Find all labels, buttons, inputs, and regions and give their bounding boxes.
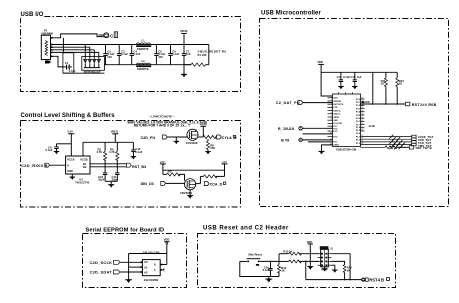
svg-text:FDV302P: FDV302P — [186, 141, 198, 145]
svg-text:GND: GND — [67, 169, 73, 173]
svg-text:USB I/O: USB I/O — [21, 12, 44, 18]
svg-text:21: 21 — [361, 120, 363, 122]
svg-text:0.1uF: 0.1uF — [121, 52, 128, 56]
wire VBUS reroute — [62, 38, 64, 54]
svg-text:28: 28 — [361, 98, 363, 100]
net flag CYLA_D — [217, 135, 237, 140]
svg-text:C2D_PU: C2D_PU — [141, 136, 156, 140]
power flag VDD — [317, 60, 324, 72]
svg-text:A2: A2 — [144, 271, 148, 275]
resistor R12 — [396, 72, 405, 104]
svg-text:B Y8: B Y8 — [281, 139, 289, 143]
op-amp U2 level shifter — [66, 156, 90, 184]
ground rail USB I/O — [104, 64, 191, 66]
wire VDD rail — [321, 71, 397, 73]
svg-text:VBUS: VBUS — [111, 130, 119, 134]
svg-text:33pF: 33pF — [98, 178, 105, 182]
wire VDD into pin8 — [160, 264, 167, 266]
capacitor C11 — [112, 167, 120, 182]
svg-text:+3.3V: +3.3V — [200, 122, 207, 126]
svg-text:USB Microcontroller: USB Microcontroller — [261, 10, 321, 16]
wire pulldown vertical — [128, 254, 130, 280]
net flag C2_DAT left — [276, 101, 333, 106]
wire reset tee down — [305, 261, 307, 280]
IC U5 — [142, 260, 160, 282]
switch S1 — [240, 259, 279, 266]
svg-text:C2D_SDAT: C2D_SDAT — [90, 270, 113, 275]
svg-text:0.1uF: 0.1uF — [135, 150, 142, 154]
svg-text:1uF: 1uF — [357, 75, 362, 79]
inductor L1 — [136, 39, 151, 51]
svg-text:A1: A1 — [144, 265, 148, 269]
capacitor C9 — [46, 144, 72, 152]
power flag +5V left — [160, 160, 166, 175]
svg-text:Mini Reset: Mini Reset — [249, 253, 263, 257]
svg-text:23: 23 — [361, 114, 363, 116]
power flag +5V right — [222, 160, 228, 164]
inductor L2 — [136, 59, 151, 71]
net flag C2D_PU — [141, 135, 187, 140]
pin nubs U5 — [140, 262, 162, 273]
ground button — [265, 277, 272, 283]
svg-text:A0: A0 — [144, 260, 148, 264]
power flag VDD eeprom — [164, 238, 170, 265]
svg-text:22: 22 — [361, 117, 363, 119]
resistor R6 — [109, 142, 119, 167]
svg-text:USB_D+: USB_D+ — [333, 110, 342, 112]
svg-text:R13 1K: R13 1K — [283, 249, 292, 253]
svg-text:6: 6 — [331, 112, 332, 114]
resistor R1 — [184, 45, 226, 67]
svg-text:VREGIN: VREGIN — [333, 101, 341, 103]
ground eeprom — [125, 280, 132, 283]
svg-text:VCCB: VCCB — [80, 157, 88, 161]
wire low left — [308, 141, 333, 143]
svg-text:GND2: GND2 — [333, 145, 339, 147]
svg-text:1K: 1K — [281, 269, 284, 273]
ground header right — [332, 265, 338, 273]
section border USB I/O — [21, 17, 241, 92]
IC U4 pin names left — [333, 98, 344, 147]
svg-text:74LVC2T45: 74LVC2T45 — [75, 180, 90, 184]
svg-text:RST/C2CK: RST/C2CK — [333, 104, 344, 106]
ground Q1 — [174, 137, 180, 144]
ground shared caps — [105, 181, 117, 187]
resistor R9 gate — [163, 170, 185, 181]
wire output loop right — [331, 254, 350, 280]
svg-text:20: 20 — [361, 123, 363, 125]
svg-text:0.1uF: 0.1uF — [134, 52, 141, 56]
capacitor C6 — [168, 45, 179, 65]
power flag VDD reset — [307, 240, 313, 267]
svg-text:SP0503BAHT: SP0503BAHT — [84, 70, 101, 74]
resistor R14 — [279, 260, 319, 263]
svg-text:VBUS: VBUS — [333, 117, 339, 119]
wire U2 outputs — [90, 163, 126, 167]
svg-text:5: 5 — [331, 109, 332, 111]
net flag boxes C2 bundle — [412, 135, 416, 146]
svg-text:1uF: 1uF — [186, 52, 191, 56]
IC U4 pins left stubs — [328, 98, 333, 145]
svg-text:-- LPWCTO NOTE --: -- LPWCTO NOTE -- — [149, 114, 175, 118]
svg-text:B2: B2 — [83, 165, 87, 169]
connector P1 USB — [41, 29, 53, 64]
svg-text:C2D: C2D — [333, 107, 338, 109]
svg-text:VDD: VDD — [307, 240, 313, 244]
svg-text:VBUS_RESET R0: VBUS_RESET R0 — [198, 50, 227, 54]
capacitor C10 — [98, 164, 107, 182]
svg-text:C8051F326-GM: C8051F326-GM — [336, 147, 357, 151]
svg-text:L2: L2 — [142, 59, 146, 63]
IC U4 pins right stubs — [361, 99, 365, 131]
svg-text:VCCA: VCCA — [67, 157, 75, 161]
capacitor F1 (bulk cap in box) — [63, 53, 76, 73]
svg-text:R_JXU18: R_JXU18 — [278, 127, 294, 131]
capacitor C14 — [337, 72, 351, 89]
svg-text:0.1uF: 0.1uF — [46, 148, 53, 152]
wire VDD to RST pullups — [372, 72, 374, 104]
power flag VBUS (control) — [111, 130, 119, 143]
svg-text:4x1K: 4x1K — [369, 124, 375, 128]
IC U4 pin names right — [356, 99, 361, 145]
wire bottom out — [306, 279, 362, 281]
svg-text:USB_D-: USB_D- — [333, 114, 341, 116]
wire A1 mid — [129, 266, 143, 268]
section border USB Microcontroller — [260, 19, 449, 207]
svg-text:GND: GND — [333, 120, 338, 122]
svg-text:+5V: +5V — [160, 160, 165, 164]
wire VDD to IC left top — [321, 72, 332, 96]
transistor Q1 — [186, 129, 198, 145]
svg-text:C2D_RX03 B: C2D_RX03 B — [21, 163, 48, 168]
header J1 — [318, 246, 334, 271]
svg-text:4.7uF: 4.7uF — [69, 69, 76, 73]
svg-text:RETURN FOR 7 AND 3 OF 15 .xx.: RETURN FOR 7 AND 3 OF 15 .xx... T — [134, 124, 190, 128]
svg-text:Serial EEPROM for Board ID: Serial EEPROM for Board ID — [86, 227, 165, 233]
wire shield to F1 box — [53, 56, 65, 67]
section border USB Reset — [198, 234, 396, 288]
svg-text:A: A — [67, 163, 69, 167]
svg-text:VDD: VDD — [333, 98, 338, 100]
svg-text:P3.0/C2D: P3.0/C2D — [333, 123, 342, 125]
wire VCCB rail — [83, 142, 133, 156]
capacitor C12 — [131, 142, 143, 159]
note text — [128, 120, 207, 127]
svg-text:10K: 10K — [210, 146, 215, 150]
svg-text:C14: C14 — [337, 75, 342, 79]
svg-text:CCA_D: CCA_D — [210, 182, 223, 186]
power flag VBUS — [180, 29, 188, 45]
svg-text:0.1uF: 0.1uF — [263, 268, 270, 272]
svg-text:24LC00/SN: 24LC00/SN — [144, 278, 159, 282]
resistor R13 — [279, 249, 319, 255]
capacitor C16 — [263, 261, 273, 277]
net flag RST_SW output — [362, 278, 390, 283]
svg-text:19: 19 — [361, 126, 363, 128]
svg-text:Control Level Shifting & Buffe: Control Level Shifting & Buffers — [21, 113, 116, 119]
svg-text:3.3V: 3.3V — [67, 130, 73, 134]
capacitor C2 — [103, 45, 114, 65]
pin numbers U4 right — [361, 98, 363, 146]
ground — [181, 65, 187, 78]
pin 8 stub — [160, 264, 163, 266]
svg-text:10V: 10V — [158, 55, 163, 59]
pin numbers U4 left — [330, 96, 332, 145]
ground header left — [322, 267, 328, 272]
svg-text:10V: 10V — [107, 55, 112, 59]
wire Q1 out + resistor R7 — [198, 135, 217, 138]
svg-text:+5V: +5V — [222, 160, 227, 164]
svg-text:L1: L1 — [142, 39, 146, 43]
shield/testpoint symbol TP1 — [104, 32, 118, 39]
transistor Q2 — [180, 179, 196, 195]
svg-text:1: 1 — [331, 96, 332, 98]
svg-text:4: 4 — [331, 106, 332, 108]
IC U4 C8051F326 — [333, 94, 361, 151]
wire RST net — [361, 101, 406, 105]
ground VDD cap — [307, 267, 313, 270]
resistor R5 — [97, 142, 107, 164]
resistor network RN1 — [389, 135, 405, 150]
ground — [54, 151, 60, 154]
wire D/VBUS bundle — [53, 45, 209, 59]
wire button loop — [240, 254, 287, 277]
svg-text:FERRITE: FERRITE — [137, 67, 149, 71]
section border Control Level Shifting — [21, 121, 241, 208]
svg-text:2: 2 — [331, 100, 332, 102]
TVS array U1 SP0503 — [82, 57, 105, 74]
ground Q2 — [187, 190, 193, 199]
IC top pins — [339, 92, 353, 94]
wire mid left — [303, 133, 333, 135]
svg-text:4.7K: 4.7K — [97, 150, 103, 154]
section border Serial EEPROM — [83, 234, 187, 288]
svg-text:VBUS: VBUS — [180, 29, 188, 33]
svg-text:25: 25 — [361, 107, 363, 109]
net flag C2D_SCLK — [90, 260, 143, 265]
net flag RST_B — [126, 163, 146, 169]
net flag RST_IN — [405, 102, 436, 107]
capacitor C5 — [154, 45, 165, 65]
capacitor C15 — [351, 72, 363, 89]
wire C2 bundle — [361, 137, 412, 148]
resistor R15 — [332, 261, 353, 279]
svg-text:USB Reset and C2 Header: USB Reset and C2 Header — [203, 226, 289, 232]
svg-text:C15: C15 — [351, 75, 356, 79]
net flag C2D_SDAT — [90, 270, 143, 275]
svg-text:1K: 1K — [399, 82, 402, 86]
svg-text:R9: R9 — [168, 170, 172, 174]
wire Q2 drain + resistor R10 — [196, 164, 225, 184]
wire pullup top — [129, 253, 167, 255]
resistor R11 — [381, 72, 388, 104]
svg-text:RST4 B: RST4 B — [369, 278, 384, 283]
svg-text:DIN_D3: DIN_D3 — [141, 182, 154, 186]
net names C2 bundle — [418, 135, 433, 148]
svg-text:VDD: VDD — [317, 60, 323, 64]
svg-text:C2_DAT_PU: C2_DAT_PU — [276, 101, 300, 105]
resistor R8 to ground — [205, 139, 215, 154]
svg-text:FERRITE: FERRITE — [137, 47, 149, 51]
net flag B_Y circle — [281, 138, 332, 142]
svg-text:0.1uF: 0.1uF — [172, 52, 179, 56]
svg-text:RST_B3: RST_B3 — [132, 165, 146, 169]
svg-text:8: 8 — [331, 119, 332, 121]
svg-text:RST2#4 R0B: RST2#4 R0B — [412, 103, 437, 107]
power flag +3.3V A — [200, 122, 207, 137]
svg-text:C2D_SCLK: C2D_SCLK — [90, 260, 113, 265]
svg-text:U5 24LC00: U5 24LC00 — [143, 251, 160, 255]
svg-text:4#R: 4#R — [365, 101, 370, 104]
svg-text:4.7K: 4.7K — [109, 150, 115, 154]
net flag C2D_RX0 — [21, 163, 66, 168]
net flag DIN_D — [141, 181, 185, 186]
svg-text:TMS_TGT: TMS_TGT — [418, 144, 432, 148]
wire box bottom to TVS ground — [63, 72, 105, 74]
capacitor C4 — [130, 45, 141, 65]
ground under U2 — [70, 174, 76, 180]
ground micro left — [319, 145, 333, 155]
pin 7 stub NC — [160, 268, 164, 271]
title USB I/O — [20, 14, 45, 18]
wire +5V distribution — [163, 169, 225, 171]
net flag R_JXU circle — [278, 127, 333, 131]
svg-text:18: 18 — [361, 130, 363, 132]
svg-text:VDD: VDD — [164, 238, 170, 242]
svg-text:1K: 1K — [381, 82, 384, 86]
net flag CCA_D — [204, 182, 225, 187]
svg-text:0.1uF: 0.1uF — [343, 75, 350, 79]
svg-text:24: 24 — [361, 110, 363, 112]
wire VBUS pin1 to shield symbol — [53, 34, 104, 38]
capacitor C7 — [182, 45, 191, 65]
power flag +3.3V — [67, 130, 74, 156]
capacitor C3 — [117, 45, 128, 65]
svg-text:J1: J1 — [330, 247, 333, 251]
resistor R13b row — [385, 146, 432, 151]
svg-text:R1 10K: R1 10K — [198, 53, 207, 57]
svg-text:7: 7 — [331, 116, 332, 118]
